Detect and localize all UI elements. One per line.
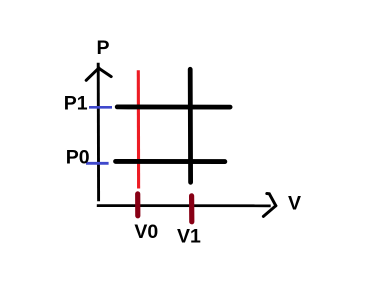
red vertical line at V0: [137, 70, 140, 188]
black horizontal line at P0: [116, 159, 225, 164]
P axis arrowhead right wing: [100, 69, 112, 77]
dark red tick mark at V0 on V axis: [135, 194, 140, 216]
svg-text:P0: P0: [66, 146, 90, 168]
dark red tick mark at V1 on V axis: [189, 196, 194, 222]
svg-text:V: V: [288, 193, 301, 215]
svg-text:P: P: [97, 37, 110, 59]
P axis arrowhead left wing: [86, 68, 99, 80]
black vertical line at V1: [188, 69, 193, 182]
svg-text:V1: V1: [177, 225, 201, 247]
svg-text:P1: P1: [64, 93, 88, 115]
P axis (vertical axis line): [97, 63, 100, 202]
V axis arrowhead upper wing: [267, 194, 276, 206]
svg-text:V0: V0: [134, 221, 158, 243]
blue tick mark at P0 on P axis: [86, 162, 109, 165]
V axis arrowhead lower wing: [263, 206, 275, 217]
V axis (horizontal axis line): [97, 204, 271, 207]
black horizontal line at P1: [117, 105, 230, 110]
blue tick mark at P1 on P axis: [89, 106, 112, 109]
